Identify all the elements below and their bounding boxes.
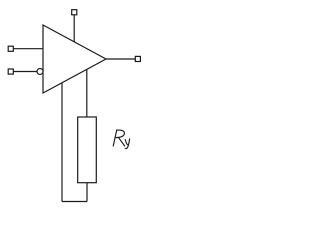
- terminal T3 (lower-left input square): [8, 69, 13, 74]
- wire (left feedback drop from triangle bottom edge): [61, 83, 63, 202]
- wire (resistor bottom lead): [86, 183, 88, 202]
- label Ry (resistor value label, drawn strokes): [113, 130, 129, 149]
- terminal T1 (top control terminal square): [72, 10, 77, 15]
- wire (bottom horizontal): [62, 201, 87, 203]
- wire (upper input to triangle): [13, 48, 43, 50]
- wire (lower input to inversion bubble): [13, 71, 37, 73]
- inversion bubble (circle at inverting input): [37, 69, 43, 75]
- wire (output): [106, 58, 135, 60]
- resistor Ry (body): [78, 117, 97, 183]
- op-amp U1 (amplifier triangle): [43, 25, 106, 93]
- wire (feedback drop from triangle bottom edge to resistor): [86, 70, 88, 117]
- wire (top terminal to triangle top edge): [73, 15, 75, 42]
- terminal T2 (upper-left input square): [8, 46, 13, 51]
- terminal T4 (output square): [135, 56, 140, 61]
